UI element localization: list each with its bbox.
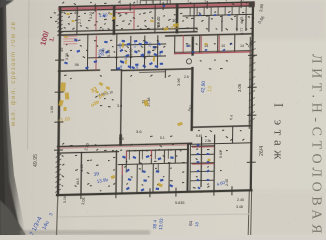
wall ticks top — [95, 1, 241, 12]
svg-text:4.45: 4.45 — [79, 163, 84, 172]
svg-text:10: 10 — [172, 18, 177, 23]
svg-text:15: 15 — [153, 46, 157, 50]
paper shading top — [0, 0, 326, 40]
blue marks right bottom cubicles — [196, 144, 209, 190]
left block horizontals — [89, 44, 166, 58]
door opening wall x193 — [191, 56, 195, 67]
svg-text:1.30: 1.30 — [99, 12, 109, 18]
svg-text:1.5: 1.5 — [133, 43, 137, 48]
bottom cubicles bottom row dividers — [122, 163, 169, 193]
svg-text:2.77: 2.77 — [240, 28, 244, 35]
svg-text:3.6: 3.6 — [136, 129, 142, 134]
left block verticals — [87, 33, 157, 71]
svg-text:2.7: 2.7 — [78, 19, 82, 24]
svg-text:5.1: 5.1 — [160, 136, 165, 140]
svg-text:6.4: 6.4 — [229, 115, 234, 121]
boxes above top wall — [140, 0, 170, 5]
corridor top wall right — [192, 126, 252, 128]
svg-text:18: 18 — [158, 52, 162, 56]
svg-text:2.45: 2.45 — [225, 179, 229, 186]
left block bottom wall — [58, 70, 99, 71]
page edge below plan left — [57, 196, 58, 235]
svg-text:5.45: 5.45 — [196, 134, 202, 138]
wall x166 stub — [164, 70, 166, 78]
right bottom cubicle rows — [191, 146, 214, 181]
svg-text:I этаж: I этаж — [272, 103, 287, 164]
bottom shadow band — [20, 230, 150, 235]
toilet partitions — [126, 149, 168, 172]
corner pier top-right — [249, 1, 255, 7]
svg-text:3.06: 3.06 — [237, 83, 242, 92]
yellow marks — [58, 13, 211, 188]
svg-text:18b: 18b — [118, 43, 122, 49]
outer wall top — [59, 4, 254, 9]
bottom cubicles mid wall — [118, 163, 187, 165]
svg-text:46: 46 — [74, 10, 79, 15]
svg-text:30.40: 30.40 — [156, 16, 161, 27]
top band red dividers — [96, 6, 134, 30]
right rooms row walls — [175, 34, 235, 54]
blue micro texts left block — [101, 42, 162, 69]
top sub-row dividers — [190, 6, 246, 15]
svg-text:2.5b: 2.5b — [205, 139, 211, 143]
thick pier wall x114 — [113, 7, 116, 34]
svg-text:5.04: 5.04 — [63, 196, 67, 203]
svg-text:10.3: 10.3 — [170, 25, 179, 30]
svg-text:49: 49 — [59, 47, 64, 52]
photo edge left — [0, 0, 26, 235]
bottom block right wall — [186, 144, 189, 192]
blue marks top rooms — [102, 5, 232, 53]
svg-text:42.90: 42.90 — [200, 80, 207, 93]
svg-text:3.6: 3.6 — [124, 55, 128, 60]
corridor bottom wall — [57, 152, 118, 154]
svg-text:49.95: 49.95 — [33, 154, 39, 167]
page fold line left — [28, 0, 30, 150]
svg-text:2.8: 2.8 — [141, 53, 145, 58]
tiny figure specks — [50, 1, 254, 193]
right bottom cubicle col — [201, 135, 215, 191]
wall ticks left — [55, 60, 64, 150]
blue marks left block — [64, 38, 163, 70]
svg-text:9b: 9b — [135, 65, 139, 69]
room right-bottom divider — [232, 126, 234, 143]
svg-text:5.635: 5.635 — [175, 201, 185, 205]
svg-text:3.96: 3.96 — [176, 77, 181, 86]
left block red partition — [95, 36, 97, 69]
right bottom red rows — [192, 147, 213, 165]
right wall hatching — [249, 42, 256, 122]
corridor bottom wall right — [189, 143, 252, 145]
top sub-row wall — [183, 14, 253, 16]
svg-text:мал. фил. срезаem 70м 2в: мал. фил. срезаem 70м 2в — [11, 21, 17, 126]
svg-text:14: 14 — [240, 44, 244, 48]
photo edge top-left corner — [0, 0, 14, 8]
thick pier wall x177 — [176, 5, 179, 32]
svg-text:10: 10 — [221, 44, 225, 48]
svg-text:ЛИТ.Н-СТОЛОВАЯ: ЛИТ.Н-СТОЛОВАЯ — [309, 54, 324, 235]
photo edge bottom-left — [0, 200, 26, 235]
page edge below plan right — [248, 191, 251, 235]
svg-text:2.45: 2.45 — [237, 198, 244, 202]
figure annotations — [50, 10, 244, 209]
bottom cubicles top row dividers — [126, 150, 175, 165]
wall ticks bottom — [81, 187, 232, 199]
door swing circle — [186, 59, 191, 64]
svg-text:13: 13 — [207, 86, 213, 92]
svg-text:5.63: 5.63 — [219, 151, 223, 158]
svg-text:38 4: 38 4 — [152, 219, 158, 229]
corridor top wall left — [58, 143, 192, 146]
svg-text:13.03: 13.03 — [158, 218, 164, 230]
stairs hatch — [64, 36, 77, 44]
top band bottom wall double — [59, 28, 197, 31]
svg-text:44.5: 44.5 — [76, 178, 80, 185]
top band verticals — [77, 3, 246, 34]
fold shadow under plan — [58, 214, 250, 217]
right rooms row bottom wall — [175, 52, 250, 54]
main wall x193 — [192, 38, 193, 130]
wall top of rooms 11-12 — [121, 69, 192, 71]
divider room11-12 — [120, 71, 123, 145]
svg-text:150b: 150b — [97, 48, 103, 58]
svg-text:3.6: 3.6 — [117, 104, 122, 108]
svg-text:9.5: 9.5 — [119, 137, 124, 141]
left wall hatching — [56, 12, 63, 192]
bottom cubicles red bits — [122, 150, 151, 174]
dim ticks above top wall — [120, 0, 243, 4]
svg-text:26/4: 26/4 — [259, 146, 265, 156]
svg-text:.96: .96 — [74, 63, 79, 67]
paper shading bottom right — [250, 190, 326, 235]
svg-text:13.00: 13.00 — [129, 48, 133, 58]
svg-text:1.60: 1.60 — [50, 106, 54, 113]
svg-text:84: 84 — [188, 220, 193, 226]
svg-text:4b: 4b — [119, 65, 123, 69]
wall ticks right — [247, 55, 256, 162]
svg-text:3.48: 3.48 — [236, 205, 243, 209]
svg-text:2.6: 2.6 — [184, 75, 189, 79]
bottom band verticals left — [81, 151, 117, 195]
svg-text:2.5: 2.5 — [148, 42, 152, 47]
outer wall bottom — [57, 190, 252, 195]
outer wall right — [251, 3, 253, 190]
outer wall left — [58, 8, 60, 195]
blue marks bottom cubicles — [122, 155, 174, 192]
